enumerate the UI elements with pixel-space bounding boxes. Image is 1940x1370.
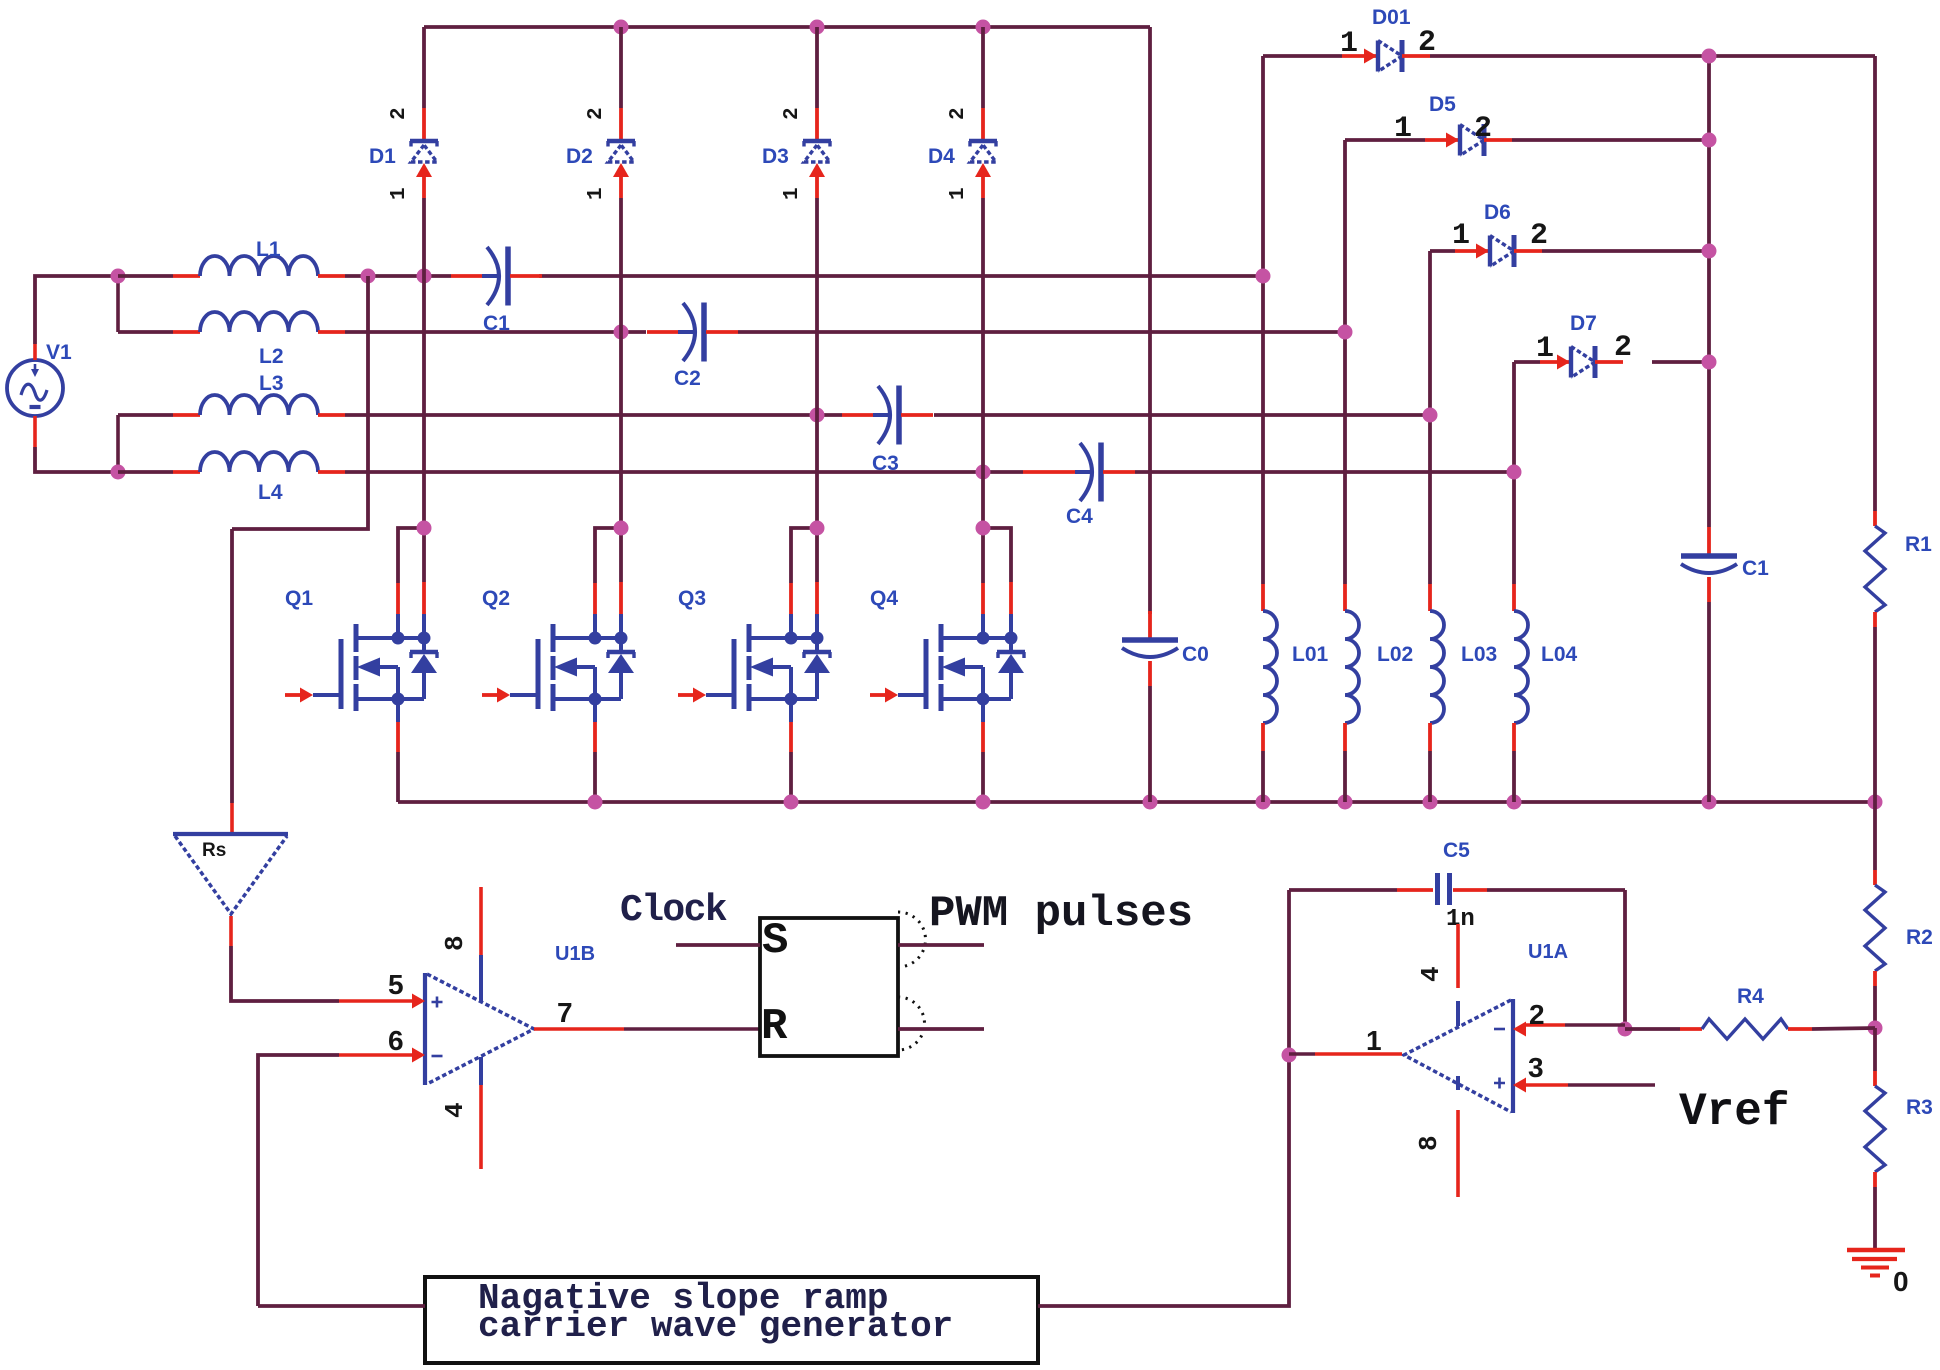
junction top bus / D4 xyxy=(976,20,991,35)
svg-text:C1: C1 xyxy=(483,312,510,335)
svg-text:L4: L4 xyxy=(258,481,283,504)
svg-text:2: 2 xyxy=(1614,331,1632,365)
pin stub U1A V+ xyxy=(1456,924,1460,988)
svg-text:Q3: Q3 xyxy=(678,587,706,610)
diode D6 xyxy=(1430,235,1709,267)
wire L04 to bottom bus xyxy=(1512,751,1516,802)
wire pin5 red xyxy=(339,999,412,1003)
junction V1 bottom / L3 / L4 xyxy=(111,465,126,480)
junction row3 / D3 column xyxy=(810,408,825,423)
inductor L01 xyxy=(1263,584,1277,751)
wire D2 column down xyxy=(619,198,623,528)
svg-text:L03: L03 xyxy=(1461,643,1497,666)
pin lead U1A V- xyxy=(1456,1076,1460,1090)
pin stub V1 + xyxy=(33,344,37,360)
svg-text:Rs: Rs xyxy=(202,840,226,861)
SR latch box xyxy=(760,918,898,1056)
junction row1 / D1 column xyxy=(417,269,432,284)
junction L01 column / row1 xyxy=(1256,269,1271,284)
junction bottom bus / Q3 source xyxy=(784,795,799,810)
wire box right to U1A output xyxy=(1038,1055,1289,1306)
wire row4 segment b xyxy=(345,470,1023,474)
svg-text:Q4: Q4 xyxy=(870,587,898,610)
wire row2 segment a xyxy=(118,330,173,334)
AC source V1 xyxy=(7,360,63,416)
inductor L03 xyxy=(1430,584,1444,751)
svg-text:U1A: U1A xyxy=(1528,941,1568,963)
wire Rs to U1B pin5 xyxy=(231,946,339,1001)
wire S output xyxy=(898,943,984,947)
wire D01 output to right column xyxy=(1709,54,1875,58)
svg-text:2: 2 xyxy=(585,107,608,120)
svg-text:8: 8 xyxy=(440,935,470,951)
pin stub U1B V- xyxy=(479,1085,483,1169)
svg-text:3: 3 xyxy=(1528,1052,1544,1083)
junction bottom bus / right column xyxy=(1868,795,1883,810)
wire row1 segment c to D01 column xyxy=(539,274,1263,278)
junction bottom bus / L01 xyxy=(1256,795,1271,810)
wire D1 column down xyxy=(422,198,426,528)
wire D3 column down xyxy=(815,198,819,528)
svg-text:L02: L02 xyxy=(1377,643,1413,666)
wire L03 to bottom bus xyxy=(1428,751,1432,802)
block Negative slope ramp carrier wave generator xyxy=(425,1277,1038,1363)
svg-text:D6: D6 xyxy=(1484,201,1511,224)
wire Clock to S xyxy=(676,943,760,947)
svg-text:R3: R3 xyxy=(1906,1096,1933,1119)
svg-text:1: 1 xyxy=(1366,1025,1382,1056)
wire R output xyxy=(898,1027,984,1031)
diode D5 xyxy=(1345,124,1709,156)
wire pin6 red xyxy=(339,1053,412,1057)
svg-text:C3: C3 xyxy=(872,452,899,475)
wire L02 to bottom bus xyxy=(1343,751,1347,802)
svg-text:2: 2 xyxy=(388,107,411,120)
wire row4 segment a xyxy=(118,470,173,474)
wire pin2 to node xyxy=(1565,1023,1625,1027)
svg-text:R4: R4 xyxy=(1737,985,1764,1008)
junction top bus / D3 xyxy=(810,20,825,35)
inverting bubble S output xyxy=(898,912,926,967)
wire row3 segment c to D6 column xyxy=(934,413,1430,417)
junction row2 / D2 column xyxy=(614,325,629,340)
wire L04 column upper xyxy=(1512,362,1516,584)
diode D01 xyxy=(1263,40,1709,72)
junction L02 column / row2 xyxy=(1338,325,1353,340)
wire L03 column upper xyxy=(1428,251,1432,584)
svg-text:4: 4 xyxy=(440,1102,470,1118)
junction cathode bus / D7 xyxy=(1702,355,1717,370)
junction D4 column / Q4 drain xyxy=(976,521,991,536)
wire pin7 to latch R xyxy=(624,1027,760,1031)
wire pin2 red xyxy=(1526,1023,1565,1027)
inverting bubble R output xyxy=(898,997,924,1050)
pin stub Rs bottom xyxy=(229,916,233,946)
wire C5 left to U1A output xyxy=(1287,890,1291,1055)
wire V1 top to node row1 xyxy=(35,276,118,344)
svg-text:1: 1 xyxy=(585,187,608,200)
junction L04 column / row4 xyxy=(1507,465,1522,480)
svg-text:2: 2 xyxy=(1418,26,1436,60)
wire sense column down xyxy=(230,529,234,803)
junction row1 / sense branch xyxy=(361,269,376,284)
wire right column upper xyxy=(1873,56,1877,511)
wire row2 segment b xyxy=(345,330,646,334)
wire cathode bus upper xyxy=(1707,56,1711,527)
svg-text:C5: C5 xyxy=(1443,839,1470,862)
capacitor C5 xyxy=(1289,873,1625,905)
svg-text:Clock: Clock xyxy=(620,889,727,932)
svg-text:L04: L04 xyxy=(1541,643,1578,666)
junction U1A output / feedback xyxy=(1282,1048,1297,1063)
svg-text:1: 1 xyxy=(947,187,970,200)
wire C5 right to U1A pin2 xyxy=(1623,890,1627,1029)
junction bottom bus / L03 xyxy=(1423,795,1438,810)
wire row3 segment a xyxy=(118,413,173,417)
svg-text:L2: L2 xyxy=(259,345,284,368)
junction bottom bus / L02 xyxy=(1338,795,1353,810)
svg-text:L3: L3 xyxy=(259,372,284,395)
svg-text:1: 1 xyxy=(1394,112,1412,146)
transistor Q3 (power MOSFET) xyxy=(678,528,831,802)
wire R1 to bottom bus xyxy=(1873,627,1877,802)
svg-text:D1: D1 xyxy=(369,145,396,168)
op-amp U1A xyxy=(1404,999,1513,1113)
wire row3 segment b xyxy=(345,413,842,417)
svg-text:PWM pulses: PWM pulses xyxy=(929,889,1193,939)
inductor L2 xyxy=(173,312,345,332)
wire row1 segment b xyxy=(345,274,451,278)
svg-text:6: 6 xyxy=(388,1025,404,1056)
svg-text:2: 2 xyxy=(1474,112,1492,146)
transistor Q4 (power MOSFET) xyxy=(870,528,1025,802)
junction cathode bus / D5 xyxy=(1702,133,1717,148)
wire R3 to ground xyxy=(1873,1187,1877,1248)
wire R2 to node xyxy=(1873,986,1877,1028)
wire L02 column upper xyxy=(1343,140,1347,584)
pin stub Rs top xyxy=(230,803,234,834)
wire generator to U1B pin6 xyxy=(258,1055,339,1306)
inductor L1 xyxy=(173,256,345,276)
diode D3 xyxy=(803,27,831,198)
svg-text:C1: C1 xyxy=(1742,557,1769,580)
capacitor C3 (series) xyxy=(842,386,933,445)
resistor R4 xyxy=(1625,1019,1875,1039)
pin stub U1A V- xyxy=(1456,1110,1460,1197)
junction bottom bus / output cap xyxy=(1702,795,1717,810)
transistor Q2 (power MOSFET) xyxy=(482,528,635,802)
capacitor C0 xyxy=(1122,611,1178,686)
capacitor C1 xyxy=(1681,527,1737,602)
junction D3 column / Q3 drain xyxy=(810,521,825,536)
svg-text:D3: D3 xyxy=(762,145,789,168)
junction pin2 / C5 xyxy=(1618,1022,1633,1037)
svg-text:R1: R1 xyxy=(1905,533,1932,556)
svg-text:Q2: Q2 xyxy=(482,587,510,610)
junction cathode bus / D6 xyxy=(1702,244,1717,259)
wire row2 segment c to D5 column xyxy=(738,330,1345,334)
junction R2 / R3 / R4 xyxy=(1868,1021,1883,1036)
svg-text:D2: D2 xyxy=(566,145,593,168)
current sensor Rs xyxy=(173,834,288,914)
svg-text:R: R xyxy=(761,1002,788,1052)
svg-text:D4: D4 xyxy=(928,145,955,168)
svg-text:carrier wave generator: carrier wave generator xyxy=(478,1306,953,1347)
svg-text:1: 1 xyxy=(388,187,411,200)
svg-text:1: 1 xyxy=(1536,332,1554,366)
svg-text:D01: D01 xyxy=(1372,6,1411,29)
svg-text:2: 2 xyxy=(947,107,970,120)
wire C0 to bottom bus xyxy=(1148,686,1152,802)
svg-text:D7: D7 xyxy=(1570,312,1597,335)
svg-text:L01: L01 xyxy=(1292,643,1329,666)
pin stub U1B V+ xyxy=(479,887,483,955)
wire pin1 red xyxy=(1315,1052,1402,1056)
svg-text:2: 2 xyxy=(781,107,804,120)
inductor L3 xyxy=(173,395,345,415)
junction top bus / D2 xyxy=(614,20,629,35)
svg-text:R2: R2 xyxy=(1906,926,1933,949)
junction bottom bus / Q2 source xyxy=(588,795,603,810)
wire node row3 to row4 xyxy=(116,415,120,472)
inductor L4 xyxy=(173,452,345,472)
transistor Q1 (power MOSFET) xyxy=(285,528,438,802)
wire node to R3 xyxy=(1873,1028,1877,1071)
junction D1 column / Q1 drain xyxy=(417,521,432,536)
wire pin3 red xyxy=(1526,1083,1568,1087)
diode D2 xyxy=(607,27,635,198)
svg-text:C0: C0 xyxy=(1182,643,1209,666)
junction bottom bus / L04 xyxy=(1507,795,1522,810)
wire L01 column upper xyxy=(1261,56,1265,584)
wire pin3 Vref xyxy=(1568,1083,1655,1087)
svg-text:1n: 1n xyxy=(1446,906,1475,933)
diode D7 xyxy=(1514,346,1709,378)
svg-text:5: 5 xyxy=(388,969,404,1000)
diode D4 xyxy=(969,27,997,198)
svg-text:1: 1 xyxy=(781,187,804,200)
svg-text:C4: C4 xyxy=(1066,505,1093,528)
wire bus to R2 xyxy=(1873,802,1877,870)
wire C0 column from top bus xyxy=(1148,27,1152,614)
wire box left to pin6 column xyxy=(258,1304,425,1308)
svg-text:1: 1 xyxy=(1452,219,1470,253)
wire node row1 to row2 xyxy=(116,276,120,332)
wire row1 segment a xyxy=(118,274,173,278)
capacitor C2 (series) xyxy=(647,303,738,362)
pin lead U1B V- xyxy=(479,1057,483,1085)
pin lead U1B V+ xyxy=(479,955,483,1001)
junction bottom bus / C0 xyxy=(1143,795,1158,810)
svg-text:1: 1 xyxy=(1340,27,1358,61)
wire pin7 red xyxy=(534,1027,624,1031)
svg-text:L1: L1 xyxy=(256,238,281,261)
junction row4 / D4 column xyxy=(976,465,991,480)
inductor L04 xyxy=(1514,584,1528,751)
svg-text:Q1: Q1 xyxy=(285,587,313,610)
wire output cap to bottom bus xyxy=(1707,602,1711,802)
wire top bus xyxy=(424,25,1150,29)
svg-text:2: 2 xyxy=(1529,999,1545,1030)
resistor R2 xyxy=(1865,870,1885,986)
wire bottom bus xyxy=(398,800,1875,804)
wire D4 column down xyxy=(981,198,985,528)
junction L03 column / row3 xyxy=(1423,408,1438,423)
junction V1 top / L1 / L2 xyxy=(111,269,126,284)
wire V1 bottom to node row4 xyxy=(35,447,118,472)
junction bottom bus / Q4 source xyxy=(976,795,991,810)
svg-text:U1B: U1B xyxy=(555,943,595,965)
svg-text:7: 7 xyxy=(557,997,573,1028)
svg-text:S: S xyxy=(762,916,788,966)
svg-text:4: 4 xyxy=(1416,966,1446,982)
wire row4 segment c to D7 column xyxy=(1135,470,1514,474)
capacitor C4 (series) xyxy=(1023,443,1135,502)
capacitor C1 (series) xyxy=(451,247,542,306)
junction D2 column / Q2 drain xyxy=(614,521,629,536)
wire L01 to bottom bus xyxy=(1261,751,1265,802)
wire row1 to sense column xyxy=(232,276,368,529)
svg-text:0: 0 xyxy=(1893,1266,1909,1297)
resistor R3 xyxy=(1865,1071,1885,1187)
pin stub V1 - xyxy=(33,416,37,447)
pin lead U1A V+ xyxy=(1456,1001,1460,1026)
svg-text:C2: C2 xyxy=(674,367,701,390)
ground 0 xyxy=(1847,1250,1905,1276)
svg-text:8: 8 xyxy=(1414,1135,1444,1151)
svg-text:D5: D5 xyxy=(1429,93,1456,116)
diode D1 xyxy=(410,27,438,198)
svg-text:V1: V1 xyxy=(46,341,72,364)
junction cathode bus / D01 xyxy=(1702,49,1717,64)
wire pin1 dark xyxy=(1289,1052,1315,1056)
resistor R1 xyxy=(1865,511,1885,627)
svg-text:2: 2 xyxy=(1530,219,1548,253)
inductor L02 xyxy=(1345,584,1359,751)
op-amp U1B xyxy=(425,973,534,1085)
svg-text:Vref: Vref xyxy=(1679,1086,1789,1138)
